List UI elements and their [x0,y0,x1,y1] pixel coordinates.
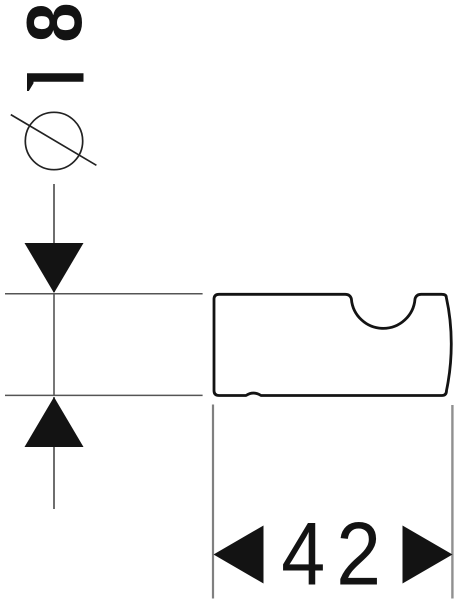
dimension label digit 1 (rotated, drawn as path) [27,73,84,91]
svg-text:8: 8 [11,3,98,43]
vertical dimension line lower segment [53,397,55,509]
vertical dimension line middle segment [53,294,55,395]
dimension label 42 [281,504,381,604]
arrowhead left (42 dimension) [214,526,264,584]
diameter symbol slash [11,115,97,166]
arrowhead down (top of Ø18 span) [25,243,84,293]
extension line top (y=294) [5,293,203,295]
extension line bottom (y=395) [5,394,203,396]
svg-text:2: 2 [336,504,381,604]
arrowhead right (42 dimension) [403,526,453,584]
extension line right of 42 dimension [451,405,453,599]
vertical dimension line upper segment [53,184,55,292]
arrowhead up (bottom of Ø18 span) [25,397,84,447]
diameter symbol circle [25,112,82,169]
extension line left of 42 dimension [212,405,214,599]
hook body outline [214,294,451,395]
svg-text:4: 4 [281,504,325,603]
